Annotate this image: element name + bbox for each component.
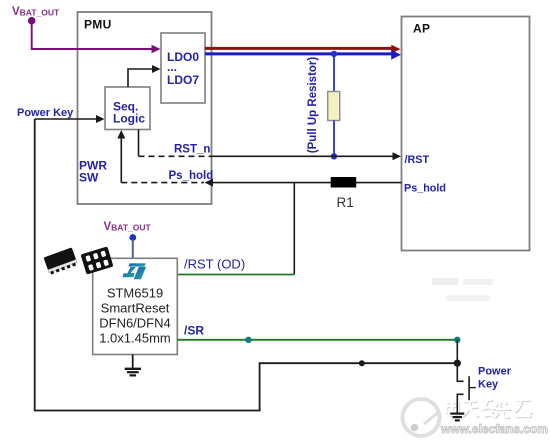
svg-text:VBAT_OUT: VBAT_OUT [12, 6, 60, 18]
ground at switch [450, 413, 464, 415]
node junction on switch line [359, 360, 365, 366]
svg-text:R1: R1 [337, 195, 354, 210]
wire VBAT drop to STM6519 [132, 240, 134, 259]
watermark 电子发烧友 (hand-drawn glyph suggestions) [447, 400, 532, 418]
svg-text:/RST: /RST [405, 154, 430, 166]
wire RST_n from Seq.Logic (solid drop) [138, 130, 140, 157]
svg-text:LDO7: LDO7 [167, 73, 199, 87]
svg-text:Ps_hold: Ps_hold [404, 183, 446, 195]
node dot (blue) above STM6519 [129, 234, 136, 241]
op block Seq. Logic box [105, 87, 150, 130]
svg-text:Logic: Logic [113, 112, 145, 126]
svg-text:PMU: PMU [84, 18, 112, 32]
bus VDD blue [205, 52, 393, 55]
wire RST_n to AP [211, 155, 394, 157]
wire /RST(OD) vertical branch [293, 183, 295, 275]
svg-text:STM6519: STM6519 [107, 286, 163, 301]
svg-text:www.elecfans.com: www.elecfans.com [440, 422, 548, 436]
svg-text:...: ... [167, 60, 177, 74]
svg-text:SW: SW [79, 171, 99, 185]
STM6519 box [93, 258, 178, 354]
wire VBAT_OUT to LDO (purple) [32, 23, 153, 49]
chip icon SOIC package [43, 247, 78, 275]
wire Power Key into Seq.Logic [35, 118, 97, 120]
svg-text:/RST (OD): /RST (OD) [184, 257, 245, 272]
wire /SR green [177, 339, 457, 341]
wire Seq.Logic to LDO [128, 69, 153, 87]
push button switch [457, 363, 463, 381]
AP box [402, 17, 530, 251]
wire pull-up top (blue) [333, 55, 335, 92]
svg-text:Key: Key [478, 379, 499, 391]
svg-text:1.0x1.45mm: 1.0x1.45mm [99, 331, 171, 346]
svg-text:RST_n: RST_n [174, 144, 210, 156]
svg-text:SmartReset: SmartReset [101, 301, 170, 316]
ST logo [123, 263, 147, 279]
svg-text:DFN6/DFN4: DFN6/DFN4 [99, 316, 171, 331]
wire /RST (OD) green [177, 274, 294, 276]
wire pull-up bottom (blue) [333, 121, 335, 157]
svg-text:Ps_hold: Ps_hold [169, 170, 214, 182]
node switch junction [454, 360, 461, 367]
svg-text:Power: Power [478, 366, 512, 378]
svg-text:AP: AP [413, 22, 430, 36]
node teal dot on /SR [245, 337, 251, 343]
resistor R1 body [331, 177, 357, 188]
node on /RST line [331, 153, 337, 159]
svg-text:(Pull Up Resistor): (Pull Up Resistor) [307, 57, 319, 154]
LDO block [161, 33, 205, 103]
watermark elecfans logo (circle) [403, 399, 440, 436]
pull-up resistor body [328, 92, 340, 121]
node VBAT_OUT dot [28, 17, 36, 25]
wire Power Key loop (left, bottom, up, to switch) [35, 119, 458, 411]
ground under STM6519 [132, 355, 134, 369]
chip icon DFN package [81, 246, 114, 274]
wire /SR drop to switch [456, 340, 458, 363]
svg-text:Power Key: Power Key [17, 107, 74, 119]
PMU box [78, 12, 212, 204]
node teal dot at /SR right end [454, 337, 460, 343]
svg-text:/SR: /SR [184, 324, 204, 338]
bus VDD red [205, 47, 393, 50]
wire Ps_hold dashed inside PMU with left arrow [121, 182, 204, 184]
node on VDD bus [331, 51, 337, 57]
wire Ps_hold up into Seq.Logic [120, 137, 122, 183]
svg-text:VBAT_OUT: VBAT_OUT [104, 221, 152, 233]
wire RST_n dashed inside PMU [139, 155, 211, 157]
watermark faint (right middle) [432, 278, 493, 301]
wire Ps_hold from AP [213, 182, 402, 184]
